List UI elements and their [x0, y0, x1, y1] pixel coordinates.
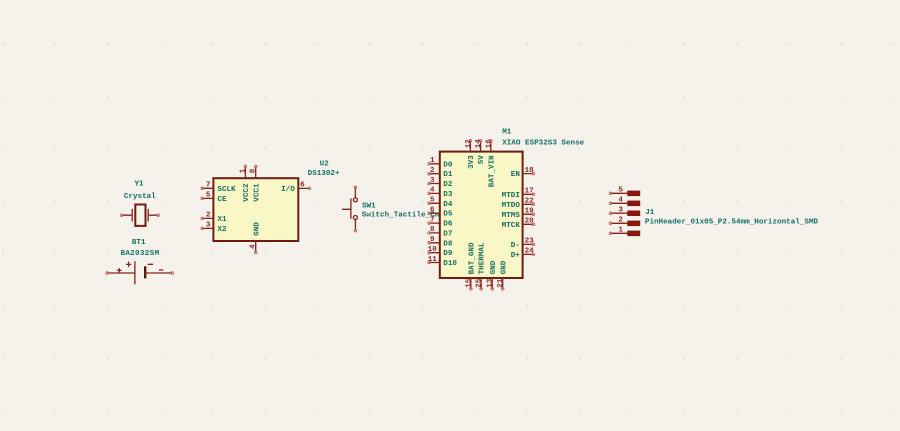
svg-text:X1: X1 [217, 216, 227, 224]
svg-text:Crystal: Crystal [124, 193, 156, 201]
svg-text:BAT_GND: BAT_GND [468, 242, 476, 274]
svg-text:D8: D8 [443, 240, 453, 248]
svg-text:5V: 5V [478, 155, 486, 165]
svg-text:4: 4 [430, 187, 435, 195]
pin 13 GND (bottom) [487, 260, 498, 290]
svg-text:VCC2: VCC2 [243, 183, 251, 202]
connector J1 PinHeader [645, 209, 819, 227]
svg-text:PinHeader_01x05_P2.54mm_Horizo: PinHeader_01x05_P2.54mm_Horizontal_SMD [645, 218, 819, 226]
svg-text:22: 22 [525, 198, 535, 206]
switch SW1 [343, 186, 440, 232]
pin 1 of Y1 [122, 214, 131, 216]
svg-text:8: 8 [430, 226, 435, 234]
pin 2 D1 [428, 167, 453, 179]
pin 6 I/O (right) [298, 187, 309, 189]
pin 5 of J1 [609, 187, 640, 196]
svg-text:GND: GND [490, 260, 498, 274]
svg-text:GND: GND [500, 260, 508, 274]
svg-text:D9: D9 [443, 250, 453, 258]
svg-text:7: 7 [430, 216, 435, 224]
svg-text:DS1302+: DS1302+ [308, 170, 340, 178]
svg-text:4: 4 [618, 197, 623, 205]
pin + of BT1 [108, 272, 135, 274]
svg-text:21: 21 [497, 278, 505, 288]
module M1 XIAO ESP32S3 Sense [440, 129, 585, 278]
svg-text:D-: D- [511, 242, 520, 250]
svg-text:9: 9 [430, 236, 435, 244]
minus sign small [159, 269, 162, 271]
contact circle bottom [353, 216, 357, 220]
svg-text:5: 5 [430, 197, 435, 205]
pin 1 of J1 [609, 227, 640, 236]
svg-text:BA2032SM: BA2032SM [120, 250, 159, 258]
pin 14 5V (top) [475, 139, 486, 165]
negative plate [144, 266, 146, 278]
pin 17 MTDI (right) [502, 188, 535, 200]
actuator stem [343, 208, 351, 210]
svg-text:6: 6 [430, 207, 435, 215]
svg-text:12: 12 [465, 139, 473, 149]
pin 12 3V3 (top) [465, 139, 476, 169]
svg-text:6: 6 [300, 182, 305, 190]
svg-text:1: 1 [430, 157, 435, 165]
svg-text:19: 19 [525, 208, 535, 216]
svg-text:D0: D0 [443, 161, 453, 169]
pin 2 X1 [203, 217, 214, 219]
pin 3 of J1 [609, 207, 640, 216]
svg-text:D1: D1 [443, 171, 453, 179]
crystal Y1 [120, 180, 159, 226]
svg-text:20: 20 [525, 218, 535, 226]
svg-text:16: 16 [485, 139, 493, 149]
svg-text:17: 17 [525, 188, 535, 196]
svg-text:5: 5 [206, 192, 211, 200]
pin 5 CE [203, 197, 214, 199]
svg-text:D5: D5 [443, 211, 453, 219]
svg-text:8: 8 [250, 168, 258, 173]
pin 21 GND (bottom) [497, 260, 508, 290]
pin 7 D6 [428, 216, 453, 228]
svg-text:2: 2 [430, 167, 435, 175]
pin 4 D3 [428, 187, 453, 199]
svg-text:MTDI: MTDI [502, 192, 520, 200]
svg-text:SCLK: SCLK [217, 186, 236, 194]
pin 10 D9 [428, 246, 453, 258]
pin 3 X2 [203, 227, 214, 229]
svg-text:EN: EN [511, 171, 521, 179]
svg-text:24: 24 [525, 248, 535, 256]
pin 6 D5 [428, 207, 453, 219]
pin 8 D7 [428, 226, 453, 238]
pin 4 GND (bottom) [255, 241, 257, 252]
pin 15 BAT_GND (bottom) [465, 242, 476, 290]
pin 24 D+ (right) [511, 248, 535, 260]
pin 2 of J1 [609, 217, 640, 226]
svg-text:X2: X2 [217, 226, 227, 234]
svg-text:Y1: Y1 [134, 180, 144, 188]
svg-text:MTCK: MTCK [502, 222, 521, 230]
battery BT1 [106, 239, 174, 284]
pin 1 of SW1 (top) [354, 188, 356, 198]
svg-text:2: 2 [206, 212, 211, 220]
svg-text:3: 3 [430, 177, 435, 185]
pin 19 MTMS (right) [502, 208, 535, 220]
pin 5 D4 [428, 197, 453, 209]
svg-text:BAT_VIN: BAT_VIN [488, 155, 496, 187]
svg-text:D7: D7 [443, 230, 453, 238]
svg-text:1: 1 [618, 227, 623, 235]
svg-text:11: 11 [428, 256, 438, 264]
pin 1 VCC2 (top) [244, 167, 246, 178]
plus sign large [127, 262, 131, 266]
svg-text:MTDO: MTDO [502, 202, 521, 210]
svg-text:M1: M1 [502, 129, 512, 137]
pin 18 EN (right) [511, 167, 535, 179]
svg-text:4: 4 [250, 244, 258, 249]
svg-text:7: 7 [206, 182, 211, 190]
pin 23 D- (right) [511, 238, 535, 250]
svg-text:3: 3 [618, 207, 623, 215]
pin 2 of SW1 (bottom) [354, 220, 356, 230]
svg-text:3: 3 [206, 222, 211, 230]
svg-text:2: 2 [618, 217, 623, 225]
svg-text:3V3: 3V3 [468, 155, 476, 169]
pin 2 of Y1 [149, 214, 157, 216]
svg-text:10: 10 [428, 246, 438, 254]
pin 1 D0 [428, 157, 453, 169]
U2 body [213, 178, 298, 241]
pin 9 D8 [428, 236, 453, 248]
actuator bar [350, 199, 352, 218]
svg-text:D+: D+ [511, 252, 521, 260]
svg-text:MTMS: MTMS [502, 212, 521, 220]
pin 20 MTCK (right) [502, 218, 535, 230]
svg-text:GND: GND [253, 222, 261, 236]
svg-text:18: 18 [525, 167, 535, 175]
pin - of BT1 [145, 272, 172, 274]
svg-text:15: 15 [465, 278, 473, 288]
svg-text:D10: D10 [443, 260, 457, 268]
pin 25 THERMAL (bottom) [476, 242, 487, 290]
svg-text:1: 1 [239, 168, 247, 173]
svg-text:D6: D6 [443, 221, 453, 229]
svg-text:SW1: SW1 [362, 202, 376, 210]
svg-text:J1: J1 [645, 209, 655, 217]
svg-text:U2: U2 [320, 160, 330, 168]
pin 3 D2 [428, 177, 453, 189]
svg-text:D2: D2 [443, 181, 453, 189]
svg-text:XIAO ESP32S3 Sense: XIAO ESP32S3 Sense [502, 140, 584, 148]
contact circle top [353, 198, 357, 202]
plus sign small [118, 269, 121, 272]
svg-text:25: 25 [476, 278, 484, 288]
pin 22 MTDO (right) [502, 198, 535, 210]
svg-text:14: 14 [475, 139, 483, 149]
svg-text:13: 13 [487, 278, 495, 288]
pin 7 SCLK [203, 187, 214, 189]
svg-text:CE: CE [217, 196, 227, 204]
minus sign large [148, 263, 152, 265]
pin 8 VCC1 (top) [255, 167, 257, 178]
M1 body [440, 152, 523, 278]
svg-text:THERMAL: THERMAL [479, 242, 487, 274]
svg-text:BT1: BT1 [132, 239, 146, 247]
svg-text:D3: D3 [443, 191, 453, 199]
pin 4 of J1 [609, 197, 640, 206]
svg-text:23: 23 [525, 238, 535, 246]
IC U2 DS1302+ [201, 160, 340, 253]
positive plate [134, 262, 136, 284]
pin 11 D10 [428, 256, 458, 268]
pin 16 BAT_VIN (top) [485, 139, 496, 187]
svg-text:D4: D4 [443, 201, 453, 209]
svg-text:I/O: I/O [281, 186, 295, 194]
svg-text:VCC1: VCC1 [253, 183, 261, 202]
svg-text:5: 5 [618, 187, 623, 195]
